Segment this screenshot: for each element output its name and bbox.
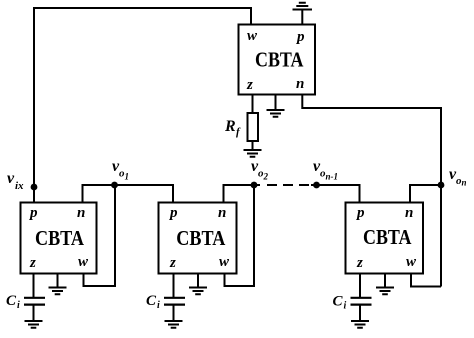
svg-text:i: i (157, 300, 160, 311)
svg-text:p: p (295, 29, 305, 45)
svg-text:v: v (7, 170, 15, 187)
svg-text:n: n (218, 205, 226, 221)
svg-text:n: n (296, 76, 304, 92)
svg-text:CBTA: CBTA (255, 48, 304, 72)
svg-text:1: 1 (125, 172, 130, 182)
svg-text:p: p (28, 205, 38, 221)
svg-text:n: n (77, 205, 85, 221)
svg-text:CBTA: CBTA (35, 226, 85, 250)
svg-text:z: z (29, 255, 36, 271)
svg-text:w: w (247, 28, 258, 44)
svg-text:n: n (462, 178, 467, 188)
svg-text:z: z (169, 255, 176, 271)
svg-text:p: p (355, 205, 365, 221)
svg-text:n: n (405, 205, 413, 221)
svg-text:n-1: n-1 (326, 172, 339, 182)
svg-text:w: w (406, 254, 417, 270)
svg-text:i: i (17, 300, 20, 311)
svg-text:C: C (146, 293, 157, 309)
svg-text:R: R (224, 118, 236, 135)
svg-text:z: z (246, 77, 253, 93)
svg-text:z: z (356, 255, 363, 271)
svg-text:i: i (344, 301, 347, 312)
svg-text:w: w (78, 254, 89, 270)
svg-text:ix: ix (15, 180, 24, 192)
svg-text:CBTA: CBTA (363, 225, 412, 249)
svg-text:C: C (333, 294, 344, 310)
svg-text:w: w (219, 254, 230, 270)
svg-text:C: C (6, 293, 17, 309)
svg-text:p: p (168, 205, 178, 221)
svg-text:CBTA: CBTA (176, 226, 226, 250)
svg-text:2: 2 (263, 172, 269, 182)
